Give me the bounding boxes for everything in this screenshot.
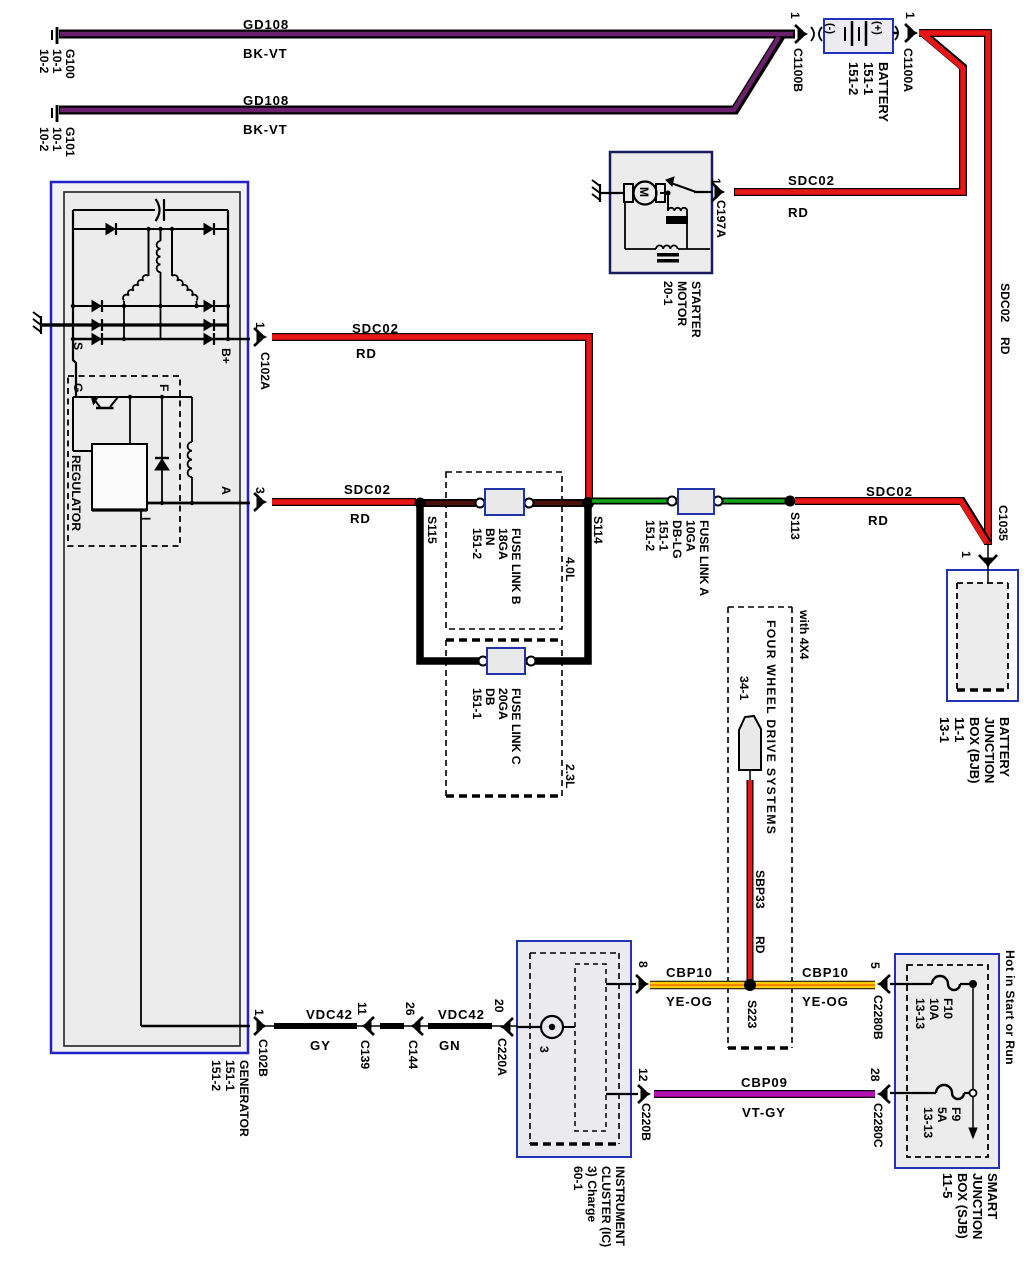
svg-text:(+): (+)	[871, 21, 883, 35]
svg-text:SDC02: SDC02	[344, 482, 391, 497]
svg-text:20: 20	[492, 999, 506, 1013]
svg-text:12: 12	[636, 1068, 650, 1082]
svg-text:C197A: C197A	[714, 200, 728, 238]
svg-text:with 4X4: with 4X4	[797, 609, 811, 660]
svg-text:C220B: C220B	[639, 1103, 653, 1141]
svg-text:CBP10: CBP10	[802, 965, 849, 980]
svg-text:C144: C144	[406, 1040, 420, 1069]
svg-text:S115: S115	[425, 516, 439, 544]
svg-text:B+: B+	[219, 348, 233, 364]
svg-text:BK-VT: BK-VT	[243, 122, 288, 137]
svg-text:CBP10: CBP10	[666, 965, 713, 980]
svg-text:28: 28	[868, 1068, 882, 1082]
svg-text:4.0L: 4.0L	[563, 557, 577, 582]
svg-text:8: 8	[636, 961, 650, 968]
svg-text:RD: RD	[868, 513, 889, 528]
svg-text:REGULATOR: REGULATOR	[69, 455, 83, 531]
svg-text:C2280B: C2280B	[871, 995, 885, 1040]
svg-text:GY: GY	[310, 1038, 331, 1053]
svg-text:Hot in Start or Run: Hot in Start or Run	[1003, 950, 1017, 1065]
svg-text:3: 3	[253, 487, 267, 494]
svg-text:S113: S113	[788, 512, 802, 540]
svg-text:C1035: C1035	[996, 505, 1010, 541]
svg-text:SDC02: SDC02	[788, 173, 835, 188]
svg-text:VDC42: VDC42	[438, 1007, 485, 1022]
svg-text:C102B: C102B	[256, 1039, 270, 1077]
svg-text:GN: GN	[439, 1038, 460, 1053]
svg-text:S114: S114	[591, 516, 605, 544]
svg-text:11: 11	[355, 1002, 369, 1015]
svg-text:C139: C139	[358, 1040, 372, 1069]
svg-text:1: 1	[903, 12, 917, 19]
svg-text:RD: RD	[998, 337, 1012, 355]
svg-text:YE-OG: YE-OG	[666, 994, 713, 1009]
svg-text:2.3L: 2.3L	[563, 764, 577, 789]
svg-text:C2280C: C2280C	[871, 1103, 885, 1148]
svg-text:VT-GY: VT-GY	[742, 1105, 786, 1120]
svg-text:A: A	[219, 486, 233, 495]
svg-text:34-1: 34-1	[737, 676, 751, 701]
svg-text:C1100B: C1100B	[791, 48, 805, 92]
svg-text:3: 3	[537, 1046, 551, 1053]
svg-text:RD: RD	[753, 936, 767, 954]
svg-text:M: M	[637, 187, 651, 197]
svg-text:1: 1	[959, 551, 973, 558]
svg-text:YE-OG: YE-OG	[802, 994, 849, 1009]
svg-text:SBP33: SBP33	[753, 870, 767, 909]
svg-text:SDC02: SDC02	[352, 321, 399, 336]
svg-text:RD: RD	[788, 205, 809, 220]
svg-text:C1100A: C1100A	[901, 48, 915, 92]
svg-text:CBP09: CBP09	[741, 1075, 788, 1090]
svg-text:BK-VT: BK-VT	[243, 46, 288, 61]
svg-text:1: 1	[709, 178, 723, 185]
svg-text:26: 26	[403, 1002, 417, 1016]
svg-text:SDC02: SDC02	[866, 484, 913, 499]
svg-text:(-): (-)	[824, 23, 836, 34]
svg-text:RD: RD	[350, 511, 371, 526]
svg-text:FOUR WHEEL DRIVE SYSTEMS: FOUR WHEEL DRIVE SYSTEMS	[764, 620, 778, 835]
svg-text:C102A: C102A	[258, 352, 272, 390]
svg-text:GD108: GD108	[243, 17, 289, 32]
svg-text:SDC02: SDC02	[998, 283, 1012, 323]
svg-text:5: 5	[868, 962, 882, 969]
svg-text:VDC42: VDC42	[306, 1007, 353, 1022]
svg-text:1: 1	[788, 12, 802, 19]
svg-text:RD: RD	[356, 346, 377, 361]
svg-text:S223: S223	[745, 1000, 759, 1029]
svg-text:GD108: GD108	[243, 93, 289, 108]
svg-text:1: 1	[252, 1009, 266, 1016]
svg-text:G: G	[71, 383, 85, 392]
svg-text:C220A: C220A	[495, 1038, 509, 1076]
svg-text:F: F	[157, 384, 171, 391]
svg-text:1: 1	[253, 322, 267, 329]
